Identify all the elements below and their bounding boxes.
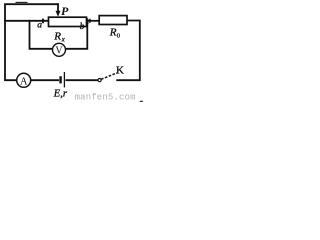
svg-text:E,r: E,r [53, 89, 68, 100]
svg-text:manfen5.com: manfen5.com [75, 93, 136, 102]
svg-text:V: V [55, 46, 63, 57]
svg-text:x: x [61, 36, 66, 44]
svg-text:0: 0 [117, 32, 120, 39]
svg-text:A: A [20, 76, 28, 87]
svg-text:P: P [61, 4, 69, 18]
svg-text:R: R [109, 27, 117, 39]
svg-text:a: a [37, 20, 42, 30]
svg-text:R: R [53, 31, 61, 43]
svg-text:b: b [80, 22, 85, 32]
svg-text:K: K [116, 64, 124, 76]
